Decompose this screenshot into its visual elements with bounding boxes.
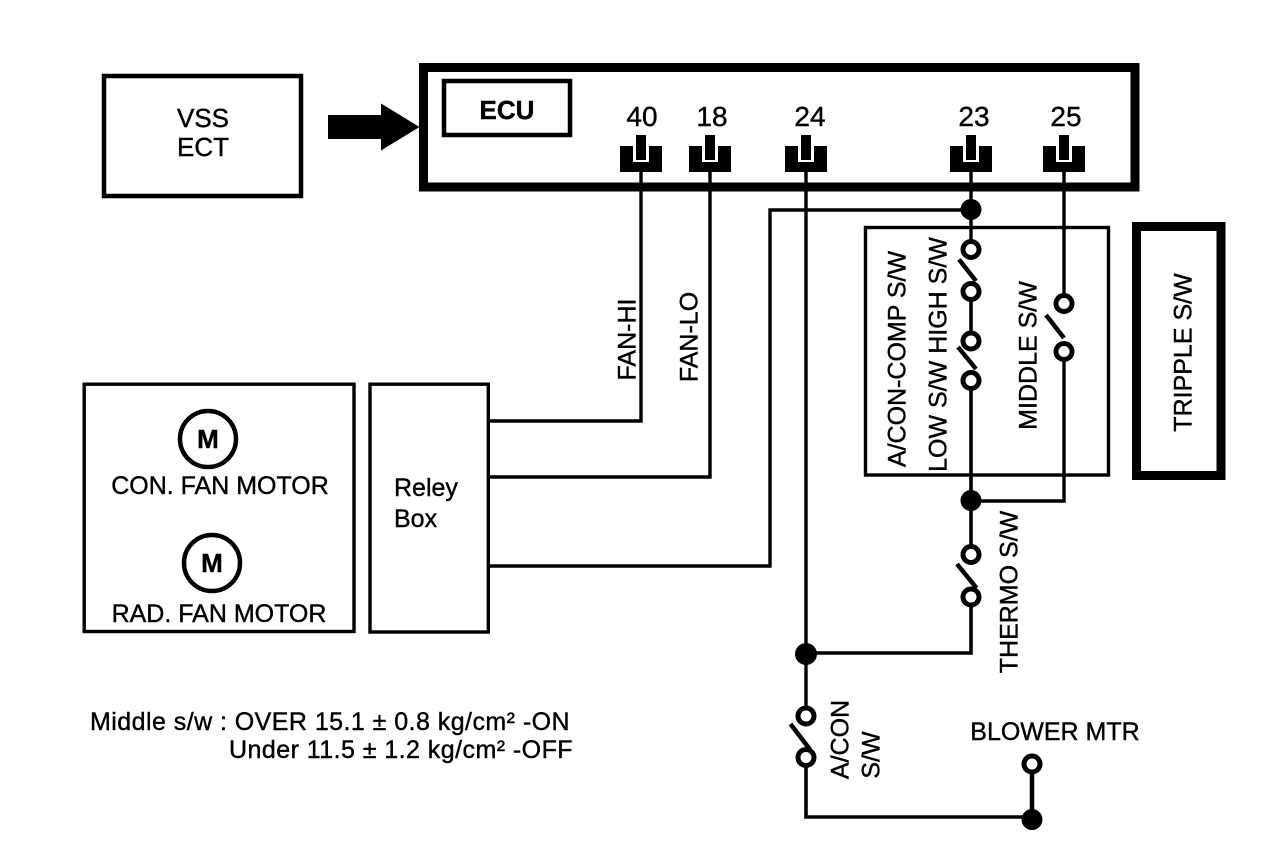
wire thermo switch to junction J3: [806, 607, 971, 653]
arrow from VSS/ECT to ECU: [328, 104, 420, 151]
wire c4 down to thermo switch: [969, 391, 973, 545]
wire A/CON switch to blower dot: [806, 768, 1032, 818]
svg-text:25: 25: [1050, 101, 1081, 132]
svg-text:23: 23: [958, 101, 989, 132]
wire c2 to c3: [969, 301, 973, 332]
svg-text:24: 24: [794, 101, 825, 132]
svg-text:Middle s/w : OVER 15.1 ± 0.8 k: Middle s/w : OVER 15.1 ± 0.8 kg/cm² -ON: [90, 708, 570, 736]
wire J3 to A/CON switch: [804, 654, 807, 706]
TRIPPLE S/W box: [1137, 227, 1222, 476]
svg-text:M: M: [197, 424, 219, 454]
blower terminal circle: [1024, 756, 1040, 772]
svg-text:Reley: Reley: [394, 474, 458, 502]
svg-text:FAN-HI: FAN-HI: [614, 299, 642, 381]
blower terminal dot: [1022, 809, 1043, 830]
pin 25 connector: [1043, 135, 1085, 172]
A/CON switch contact a2: [798, 750, 814, 766]
svg-text:TRIPPLE S/W: TRIPPLE S/W: [1170, 273, 1198, 432]
condenser fan motor M1: [180, 411, 236, 467]
A/CON switch blade: [791, 724, 811, 750]
pin 18 connector: [689, 135, 731, 172]
A/CON switch contact a1: [798, 708, 814, 724]
svg-text:MIDDLE S/W: MIDDLE S/W: [1015, 281, 1043, 430]
wire pin25 down to middle switch: [1062, 170, 1065, 294]
svg-text:S/W: S/W: [858, 731, 886, 779]
wire junction J1 to relay box: [490, 210, 971, 566]
junction J1: [961, 199, 982, 220]
svg-text:RAD. FAN MOTOR: RAD. FAN MOTOR: [112, 600, 327, 628]
svg-text:A/CON-COMP S/W: A/CON-COMP S/W: [884, 250, 912, 467]
svg-text:CON. FAN MOTOR: CON. FAN MOTOR: [111, 472, 329, 500]
fan motors box: [84, 384, 354, 631]
VSS/ECT box: [104, 76, 301, 196]
svg-text:Under 11.5 ± 1.2 kg/cm² -OFF: Under 11.5 ± 1.2 kg/cm² -OFF: [229, 736, 573, 764]
ECU box: [424, 68, 1136, 188]
ECU label box: [444, 81, 570, 135]
svg-text:LOW S/W HIGH S/W: LOW S/W HIGH S/W: [925, 237, 953, 472]
svg-text:40: 40: [626, 101, 657, 132]
wire middle switch to junction J2: [971, 362, 1064, 502]
svg-text:BLOWER MTR: BLOWER MTR: [970, 718, 1139, 746]
relay box: [370, 384, 488, 632]
wire pin23 down to switch chain: [969, 170, 972, 240]
middle switch blade: [1046, 315, 1064, 338]
switch blade c3-c4: [958, 347, 976, 369]
A/CON-COMP switch box: [866, 228, 1109, 476]
svg-text:FAN-LO: FAN-LO: [676, 292, 704, 382]
switch chain contact c1: [963, 242, 979, 258]
radiator fan motor M2: [184, 535, 240, 591]
pin 24 connector: [785, 135, 827, 172]
junction J2: [961, 490, 982, 511]
svg-text:ECU: ECU: [480, 95, 535, 125]
thermo switch blade: [957, 564, 977, 588]
middle switch contact A: [1056, 296, 1072, 312]
svg-text:18: 18: [696, 101, 727, 132]
thermo switch contact t1: [963, 547, 979, 563]
thermo switch contact t2: [963, 589, 979, 605]
switch blade c1-c2: [959, 260, 976, 282]
wire pin40 to relay box (FAN-HI): [490, 170, 641, 421]
wire pin24 down to junction J3: [804, 170, 807, 654]
switch chain contact c4: [963, 373, 979, 389]
junction J3: [795, 643, 817, 665]
pin 40 connector: [620, 135, 662, 172]
wire pin18 to relay box (FAN-LO): [490, 170, 710, 477]
pin 23 connector: [950, 135, 992, 172]
svg-text:VSS: VSS: [177, 103, 229, 133]
svg-text:A/CON: A/CON: [827, 700, 855, 779]
svg-text:M: M: [201, 548, 223, 578]
switch chain contact c3: [963, 333, 979, 349]
svg-text:Box: Box: [394, 505, 438, 533]
svg-text:ECT: ECT: [177, 132, 229, 162]
switch chain contact c2: [963, 284, 979, 300]
middle switch contact B: [1056, 344, 1072, 360]
wire blower circle to dot: [1030, 774, 1035, 819]
svg-text:THERMO S/W: THERMO S/W: [996, 510, 1024, 673]
